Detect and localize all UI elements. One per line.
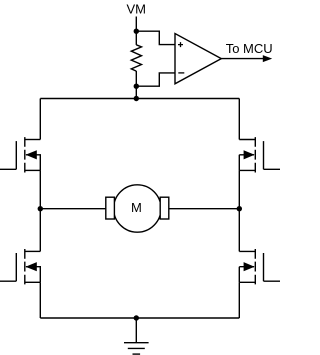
wire motor left <box>40 208 106 210</box>
wire sense+ to op-amp <box>136 31 175 44</box>
wire left rail upper <box>39 99 41 140</box>
wire sense- to op-amp <box>136 73 175 86</box>
resistor shunt <box>131 45 141 71</box>
wire right rail lower <box>238 282 240 318</box>
wire left rail lower <box>39 282 41 318</box>
wire shunt bottom to top rail <box>135 71 137 99</box>
wire bottom rail <box>40 317 239 319</box>
transistor Q1 top-left <box>0 137 40 172</box>
junction dot ground <box>134 315 139 320</box>
wire right rail upper <box>238 99 240 140</box>
transistor Q2 top-right <box>239 137 280 172</box>
transistor Q4 bottom-right <box>239 249 280 284</box>
junction dot sense top <box>134 29 139 34</box>
wire motor right <box>169 208 240 210</box>
op-amp U1 <box>175 34 221 84</box>
wire right rail middle <box>238 170 240 251</box>
svg-text:VM: VM <box>126 2 146 17</box>
motor M <box>106 185 169 232</box>
junction dot motor left <box>38 206 43 211</box>
wire left rail middle <box>39 170 41 251</box>
wire op-amp output <box>221 58 264 60</box>
junction dot sense bottom <box>134 84 139 89</box>
wire top rail <box>40 98 239 100</box>
ground <box>124 318 149 354</box>
wire VM down to shunt top <box>135 17 137 45</box>
svg-text:To MCU: To MCU <box>226 41 273 56</box>
junction dot shunt to rail <box>134 96 139 101</box>
transistor Q3 bottom-left <box>0 249 40 284</box>
svg-text:M: M <box>131 200 142 215</box>
arrowhead to MCU <box>263 55 272 62</box>
junction dot motor right <box>237 206 242 211</box>
